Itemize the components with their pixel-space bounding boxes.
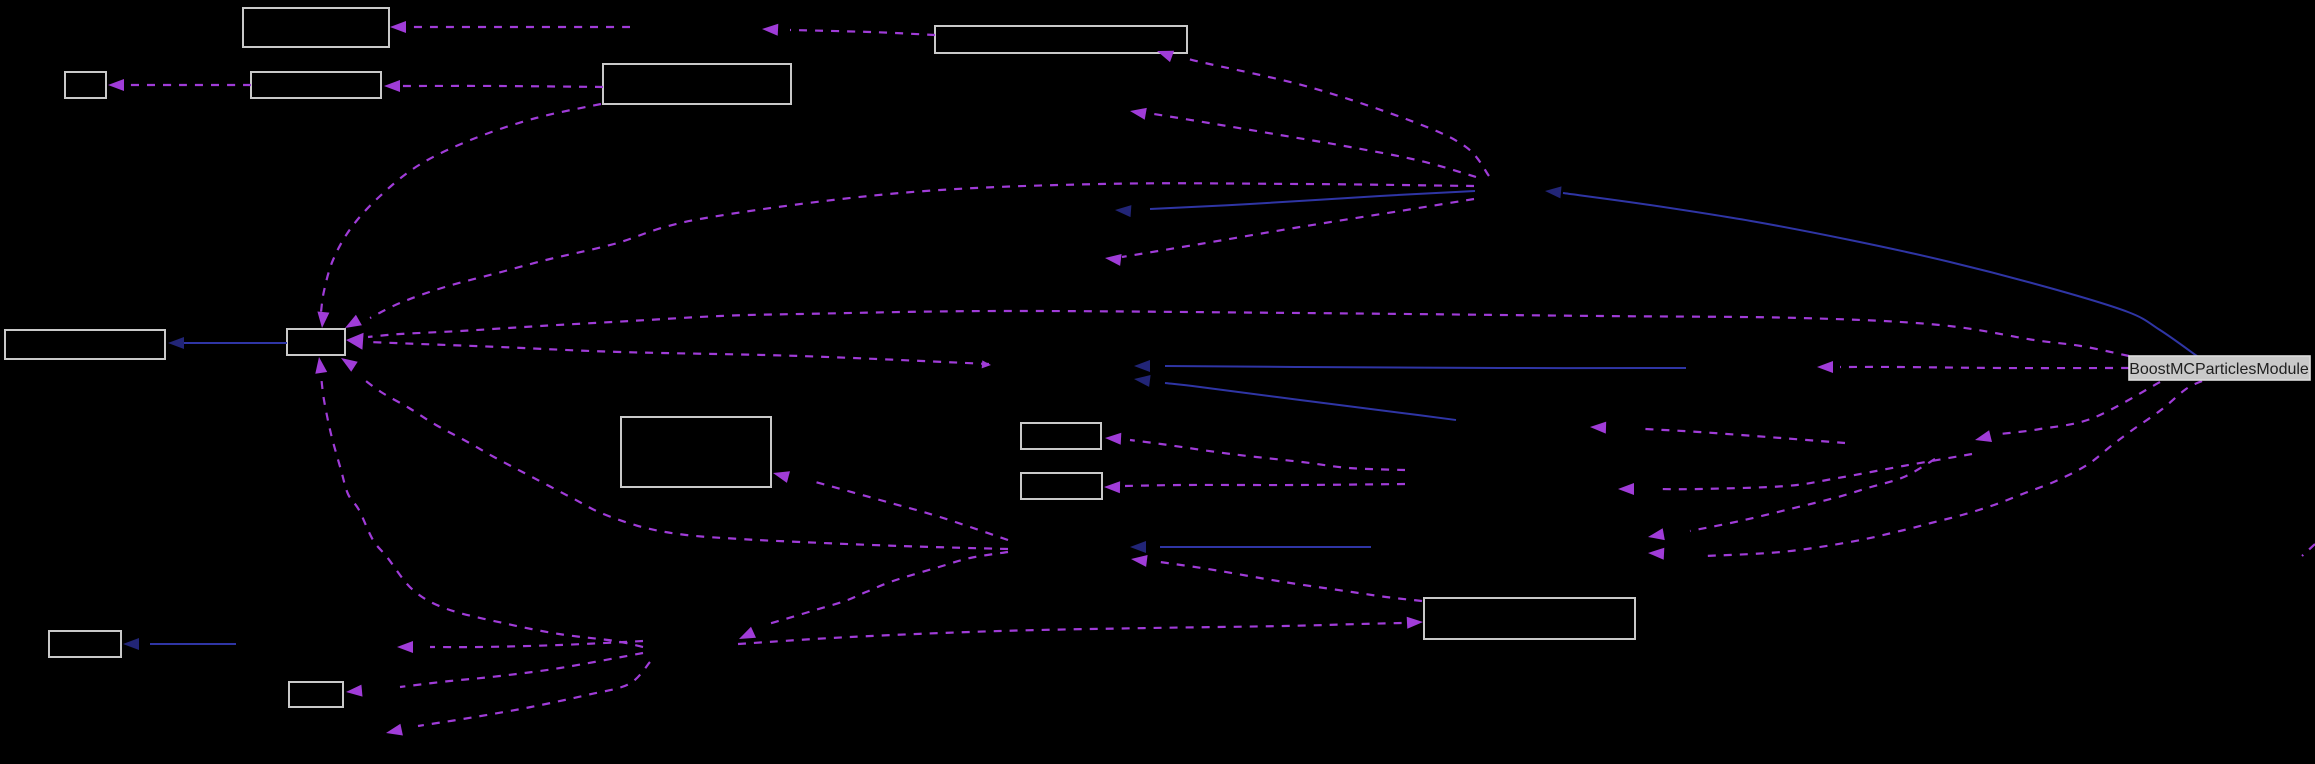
edge T18 to N9	[1130, 440, 1405, 470]
edge H3 to H4	[768, 552, 1008, 624]
blue edge T14 to H3	[1160, 546, 1371, 548]
node N4	[603, 64, 791, 104]
node N6	[5, 330, 165, 359]
edge H1 to N1	[404, 26, 630, 28]
arrow into T6 left edge	[982, 360, 991, 368]
blue edge H2 to T3	[1150, 191, 1475, 209]
edge H2 to N5	[1185, 58, 1489, 176]
edge H5 to Tbig	[1655, 454, 1972, 489]
blue edge BoostMC to H2	[1563, 193, 2197, 356]
node N10	[1021, 473, 1102, 499]
edge N13 to H3	[1160, 562, 1422, 601]
edge BoostMC to N7 long	[368, 311, 2129, 356]
edge BoostMC to T9	[2000, 382, 2160, 434]
blue edge N7 to N6	[182, 342, 287, 344]
edge BoostMC to T7	[1840, 367, 2129, 368]
edge H4 to N12	[400, 653, 643, 687]
edge T18 to N10	[1125, 484, 1405, 486]
edge H2 to N7 long	[370, 183, 1474, 318]
edge T6 to N7	[368, 342, 989, 364]
node N11	[49, 631, 121, 657]
blue edge T8 to T6	[1165, 383, 1456, 420]
edge H2 to T2	[1148, 113, 1476, 177]
edge H4 to T15	[430, 641, 643, 647]
svg-text:BoostMCParticlesModule: BoostMCParticlesModule	[2129, 361, 2309, 378]
node N13	[1424, 598, 1635, 639]
arrow into N7 right edge	[346, 333, 364, 350]
edge H3 to N8	[812, 481, 1008, 540]
edge H4 to T16	[418, 662, 650, 726]
edge H5 to T8	[1645, 429, 1845, 443]
node N3	[251, 72, 381, 98]
edge H4 to N13	[738, 623, 1402, 644]
edge fragment bottom right	[2302, 544, 2315, 556]
node N8	[621, 417, 771, 487]
node N12	[289, 682, 343, 707]
node N1	[243, 8, 389, 47]
edge H5 to T11 upper	[1690, 459, 1935, 531]
edge H2 to T4	[1122, 199, 1474, 257]
blue edge T17 to N11	[150, 643, 236, 645]
node N5	[935, 26, 1187, 53]
edge H4 to N7 bottom	[321, 375, 643, 647]
node N9	[1021, 423, 1101, 449]
node BoostMCParticlesModule (current)	[2129, 356, 2310, 380]
edge BoostMC to T11 lower	[1705, 381, 2202, 556]
blue edge T7 to T6	[1165, 366, 1686, 368]
edge N5 to H1	[790, 30, 935, 35]
node N7 hub	[287, 329, 345, 355]
edge N4 to N3	[400, 86, 603, 87]
edge N3 to N2	[122, 84, 251, 86]
edge N4 to N7	[321, 104, 601, 312]
edge H3 to N7 corner	[362, 378, 1008, 549]
node N2	[65, 72, 106, 98]
